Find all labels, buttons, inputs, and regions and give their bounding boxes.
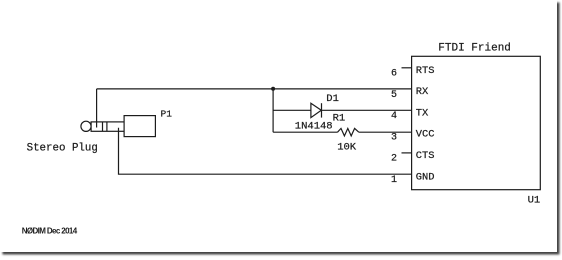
diode D1	[311, 103, 322, 117]
svg-text:3: 3	[391, 132, 397, 143]
svg-text:1: 1	[391, 175, 397, 186]
svg-text:GND: GND	[416, 171, 435, 183]
resistor R1	[338, 128, 359, 136]
svg-text:1N4148: 1N4148	[295, 120, 333, 132]
wire: resistor left feed	[273, 131, 337, 133]
svg-text:R1: R1	[333, 113, 346, 125]
svg-text:6: 6	[391, 69, 397, 80]
connector P1 body	[124, 116, 155, 137]
svg-text:TX: TX	[416, 107, 429, 119]
svg-text:NØDIM Dec 2014: NØDIM Dec 2014	[22, 227, 78, 236]
wire: plug sleeve down and to pin 1 GND	[119, 128, 412, 175]
svg-text:5: 5	[391, 90, 397, 101]
connector P1 ring divider 1	[102, 122, 104, 131]
wire: top net (tip to pin 5 RX)	[97, 88, 412, 90]
svg-text:4: 4	[391, 111, 397, 122]
wire: plug tip up to RX net	[96, 89, 98, 128]
connector P1 ring divider 2	[106, 122, 108, 131]
IC U1 FTDI Friend box	[412, 56, 541, 189]
wire: diode anode feed	[273, 109, 311, 111]
svg-text:RTS: RTS	[416, 65, 435, 77]
svg-text:U1: U1	[528, 194, 541, 206]
pin 2 CTS stub	[402, 152, 412, 154]
svg-text:RX: RX	[416, 86, 429, 98]
connector P1 stereo plug tip	[81, 121, 91, 131]
wire: resistor to pin 3 VCC	[359, 131, 412, 133]
svg-text:VCC: VCC	[416, 129, 435, 141]
svg-text:CTS: CTS	[416, 150, 435, 162]
svg-text:Stereo Plug: Stereo Plug	[27, 142, 98, 154]
connector P1 plug shaft	[91, 122, 124, 131]
wire: junction vertical drop	[272, 89, 274, 133]
node: junction on RX net	[271, 87, 275, 91]
svg-text:2: 2	[391, 154, 397, 165]
svg-text:P1: P1	[161, 108, 173, 119]
svg-text:D1: D1	[326, 93, 339, 105]
svg-text:FTDI Friend: FTDI Friend	[438, 43, 511, 55]
pin 6 RTS stub	[402, 67, 412, 69]
wire: diode cathode to pin 4 TX	[322, 109, 412, 111]
svg-text:10K: 10K	[337, 141, 357, 153]
